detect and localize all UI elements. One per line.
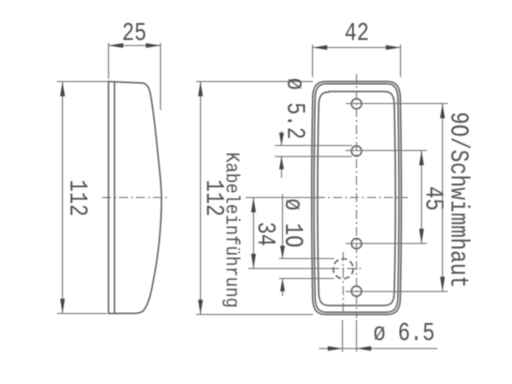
svg-text:34: 34 — [250, 222, 280, 247]
svg-text:112: 112 — [62, 180, 92, 217]
svg-text:25: 25 — [122, 19, 147, 49]
svg-text:9O/Schwimmhaut: 9O/Schwimmhaut — [443, 112, 473, 288]
svg-text:ø 1O: ø 1O — [277, 198, 307, 247]
svg-text:Kabeleinführung: Kabeleinführung — [220, 152, 242, 308]
svg-text:ø 5.2: ø 5.2 — [279, 78, 309, 139]
svg-text:ø 6.5: ø 6.5 — [373, 319, 434, 349]
svg-text:42: 42 — [344, 19, 369, 49]
